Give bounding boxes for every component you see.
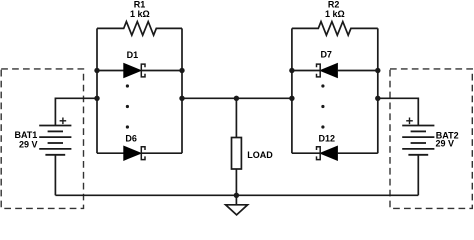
ellipsis dots D2-D5	[126, 84, 129, 128]
node dot load tap	[234, 96, 239, 101]
plus sign BAT2	[406, 118, 413, 125]
dashed box around BAT2	[390, 69, 472, 209]
dashed box around BAT1	[1, 69, 83, 209]
wire load top lead	[235, 98, 237, 137]
wire BAT2 - terminal down to ground rail	[417, 155, 419, 196]
wire BAT2 + terminal to right ladder	[378, 98, 419, 125]
battery BAT1	[39, 126, 71, 155]
diode D7	[292, 64, 378, 78]
svg-text:1 kΩ: 1 kΩ	[130, 9, 150, 19]
wire ground stub	[235, 195, 237, 205]
wire left ladder right rail	[181, 28, 183, 153]
wire output node between ladders	[182, 97, 292, 99]
node dot right ladder right rail at battery wire	[375, 96, 380, 101]
svg-text:D1: D1	[127, 50, 139, 60]
diode D1	[97, 64, 182, 78]
wire BAT1 - terminal down to ground rail	[54, 155, 56, 196]
node dot right ladder right rail at D7 row	[375, 68, 380, 73]
svg-text:29 V: 29 V	[436, 139, 455, 149]
svg-text:D12: D12	[319, 133, 336, 143]
wire BAT1 + terminal up to node A	[55, 98, 97, 125]
svg-text:R1: R1	[134, 0, 146, 9]
diode D12	[292, 146, 378, 160]
ground	[226, 205, 248, 215]
resistor R1	[97, 22, 182, 36]
svg-text:D7: D7	[320, 50, 332, 60]
ellipsis dots D8-D11	[321, 84, 324, 128]
plus sign BAT1	[60, 118, 67, 125]
wire load bottom lead	[235, 169, 237, 195]
wire right ladder left rail	[291, 28, 293, 153]
node dot right ladder left rail at D7 row	[289, 68, 294, 73]
resistor R2	[292, 22, 378, 36]
node dot right ladder left rail at output wire	[289, 96, 294, 101]
node dot inner-left rail at D1 row	[179, 68, 184, 73]
wire left ladder left rail	[96, 28, 98, 153]
node dot inner-left rail at output wire	[179, 96, 184, 101]
node dot left rail at D1 row	[94, 68, 99, 73]
svg-text:LOAD: LOAD	[247, 150, 273, 160]
svg-text:1 kΩ: 1 kΩ	[325, 9, 345, 19]
diode D6	[97, 146, 182, 160]
wire bottom ground rail	[55, 194, 418, 196]
battery BAT2	[402, 126, 434, 155]
wire right ladder right rail	[377, 28, 379, 153]
svg-text:29 V: 29 V	[19, 139, 38, 149]
svg-text:D6: D6	[125, 134, 137, 144]
svg-text:R2: R2	[328, 0, 340, 9]
node dot ground junction	[234, 193, 239, 198]
resistor LOAD (box style)	[232, 138, 242, 170]
node dot left rail at battery wire	[94, 96, 99, 101]
